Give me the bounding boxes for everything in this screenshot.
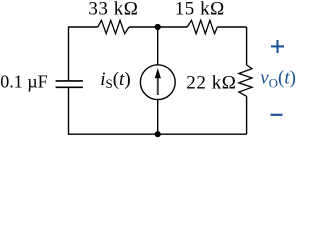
label minus sign (271, 114, 283, 116)
label vO(t) (260, 68, 296, 91)
wire top-middle segment (129, 26, 187, 28)
resistor 33 kOhm (98, 20, 129, 33)
svg-text:0.1 µF: 0.1 µF (0, 71, 47, 91)
capacitor 0.1 uF (56, 81, 83, 87)
current source iS(t) (140, 65, 175, 100)
label 33 kOhm (88, 0, 138, 20)
resistor 15 kOhm (187, 20, 217, 33)
svg-text:22 kΩ: 22 kΩ (186, 73, 236, 94)
wire middle upper segment (157, 27, 159, 65)
svg-text:15 kΩ: 15 kΩ (175, 0, 225, 20)
wire bottom segment (68, 133, 247, 135)
label plus sign (271, 40, 284, 53)
wire right upper segment (246, 27, 248, 65)
wire left upper segment (68, 26, 70, 80)
wire top-left segment (69, 26, 98, 28)
wire top-right segment (217, 26, 246, 28)
label 0.1 uF (0, 71, 47, 91)
svg-text:33 kΩ: 33 kΩ (88, 0, 138, 20)
label 22 kOhm (186, 73, 236, 94)
resistor 22 kOhm (239, 65, 252, 96)
wire right lower segment (246, 96, 248, 134)
node bottom junction dot (155, 131, 161, 137)
wire middle lower segment (157, 100, 159, 135)
label iS(t) (100, 69, 130, 91)
svg-text:iS(t): iS(t) (100, 69, 130, 91)
wire left lower segment (68, 88, 70, 134)
svg-text:vO(t): vO(t) (260, 68, 296, 91)
label 15 kOhm (175, 0, 225, 20)
node top junction dot (155, 24, 161, 30)
